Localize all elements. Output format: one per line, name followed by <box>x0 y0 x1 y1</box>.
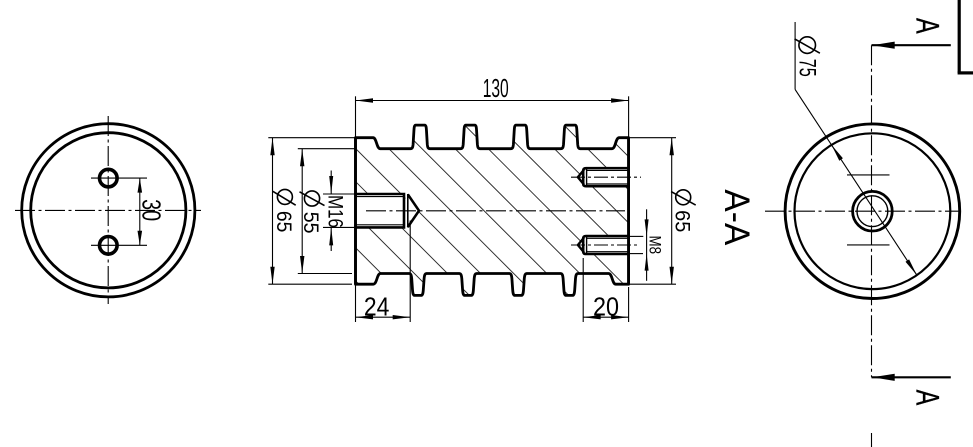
right view center hole outer circle <box>853 191 893 231</box>
svg-text:75: 75 <box>794 59 821 77</box>
right view inner circle <box>795 133 951 289</box>
M16 threaded hole outline <box>356 194 405 227</box>
section arrow bottom <box>872 376 951 378</box>
M16 thread inner thin lines <box>357 196 405 198</box>
svg-text:M16: M16 <box>324 195 347 228</box>
dimension D55 extension lines <box>298 148 356 150</box>
upper M8 hole outline <box>583 168 628 186</box>
left view outer circle <box>22 124 195 297</box>
svg-text:30: 30 <box>137 199 167 221</box>
svg-text:55: 55 <box>299 212 322 234</box>
right view vertical centerline bottom dash <box>871 433 873 447</box>
svg-text:130: 130 <box>483 73 509 103</box>
M16 drill cone <box>408 194 419 227</box>
dimension D65 left extension lines <box>268 137 355 139</box>
right view vertical centerline <box>871 45 873 377</box>
dimension D65 right line <box>671 138 673 285</box>
right view center hole inner circle <box>857 196 888 227</box>
dimension D75 text <box>799 37 816 54</box>
dimension D65 right text <box>676 190 691 205</box>
upper M8 drill cone <box>578 170 584 185</box>
svg-text:24: 24 <box>364 291 390 321</box>
left view upper hole centerline / extension <box>91 177 147 179</box>
lower M8 end vertical line <box>586 236 588 254</box>
dimension 130 extension line left <box>355 96 357 137</box>
left view vertical centerline <box>107 116 109 304</box>
right view horizontal centerline <box>765 210 961 212</box>
upper M8 thread thin lines <box>587 170 629 172</box>
lower M8 hole outline <box>583 236 628 254</box>
left view horizontal centerline <box>15 209 201 211</box>
right view outer circle <box>785 124 960 299</box>
dimension 20 line <box>583 316 628 318</box>
lower M8 thread thin lines <box>587 237 629 239</box>
dimension D75 leader vertical segment <box>794 22 796 89</box>
dimension D55 text <box>304 191 319 206</box>
upper M8 end vertical line <box>586 168 588 186</box>
white fill of lower M8 hole <box>578 236 629 254</box>
white fill of M16 hole <box>356 194 420 227</box>
dimension 30 line <box>139 178 141 245</box>
dimension M8 extension lines <box>630 235 643 237</box>
lower M8 drill cone <box>578 238 584 253</box>
dimension D65 left line <box>272 138 274 285</box>
left view lower hole M8 <box>100 237 118 255</box>
body right face <box>627 138 630 285</box>
dimension M16 arrows <box>330 171 332 195</box>
M16 hole end vertical line <box>407 194 409 227</box>
middle view main axis centerline <box>366 210 625 212</box>
svg-text:20: 20 <box>593 291 619 321</box>
dimension D75 diagonal line <box>795 89 917 275</box>
dimension 24 extension line right <box>409 221 411 323</box>
lower M8 centerline <box>571 244 637 246</box>
svg-text:65: 65 <box>671 210 695 232</box>
svg-text:65: 65 <box>272 211 295 233</box>
dimension 20 extension line left <box>582 258 584 322</box>
svg-text:A: A <box>910 18 946 34</box>
dimension D65 left text <box>277 189 292 204</box>
left view inner circle <box>31 133 186 288</box>
left view lower hole centerline / extension <box>91 244 147 246</box>
left view upper hole M8 <box>100 169 118 187</box>
body outline (screw with ribs) <box>356 125 629 295</box>
body left face <box>354 138 357 285</box>
white fill of upper M8 hole <box>578 168 629 186</box>
drawing frame corner vertical <box>958 0 961 73</box>
svg-text:A: A <box>910 390 946 406</box>
dimension M16 extension lines <box>323 193 356 195</box>
dimension 130 extension line right <box>628 96 630 137</box>
drawing frame corner horizontal <box>958 71 973 74</box>
dimension 20 extension line right <box>628 287 630 322</box>
dimension D55 line <box>301 149 303 274</box>
svg-text:A-A: A-A <box>717 189 756 246</box>
dimension D65 right extension lines <box>630 137 676 139</box>
dimension 24 extension line left <box>355 284 357 322</box>
svg-text:M8: M8 <box>646 236 664 255</box>
right view upper hole mark <box>847 174 890 176</box>
dimension M8 stem and arrows <box>646 209 648 280</box>
right view lower hole mark <box>847 244 890 246</box>
upper M8 centerline <box>571 176 641 178</box>
section arrow top <box>872 44 951 46</box>
dimension 24 line <box>356 316 411 318</box>
dimension 130 line <box>356 100 629 102</box>
